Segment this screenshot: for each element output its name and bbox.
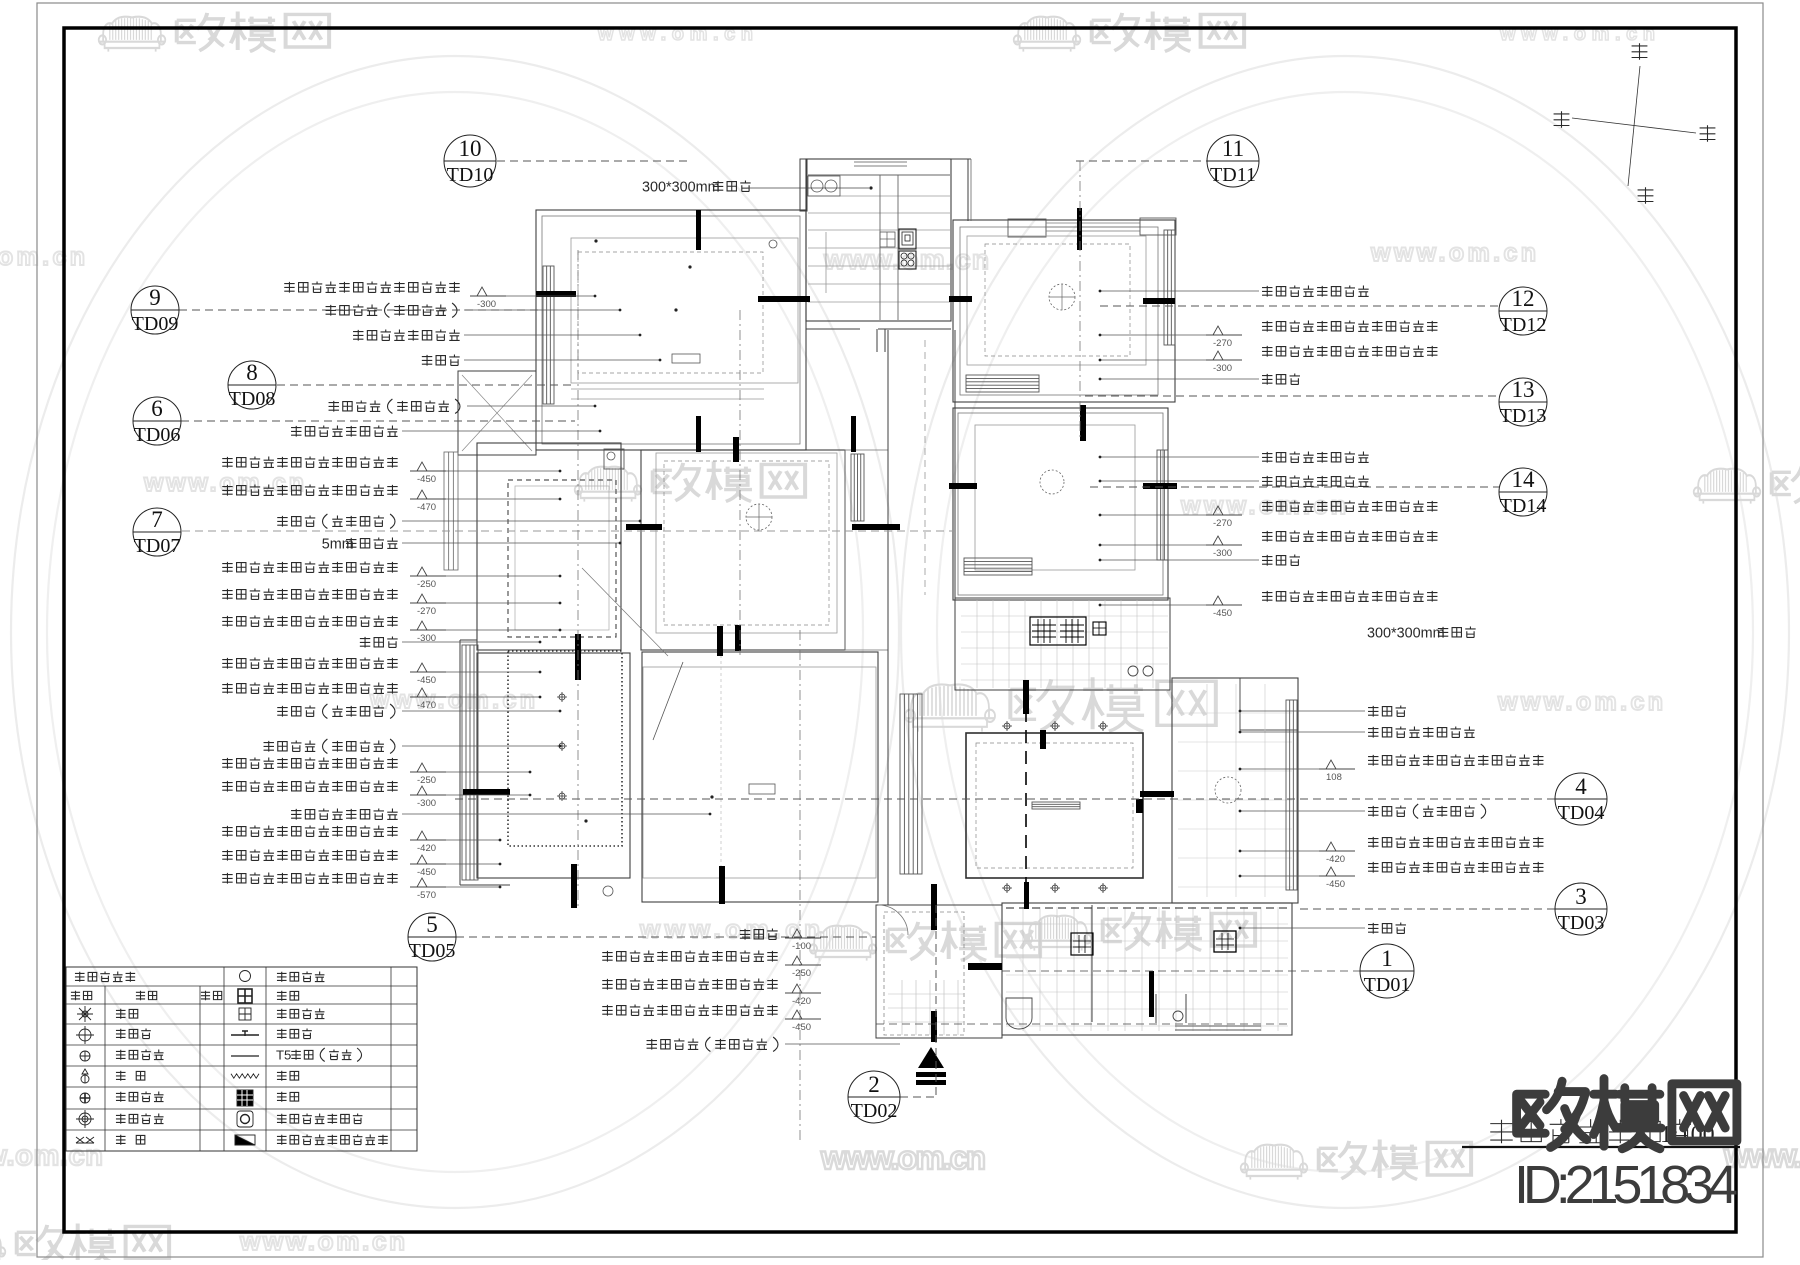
svg-text:-450: -450 (417, 675, 436, 686)
svg-text:www.om.cn: www.om.cn (1370, 239, 1536, 267)
svg-text:8: 8 (246, 360, 258, 385)
legend table (66, 967, 417, 1151)
svg-text:-270: -270 (1213, 518, 1232, 529)
svg-text:-450: -450 (792, 1022, 811, 1033)
svg-text:300*300mm: 300*300mm (642, 180, 720, 196)
svg-text:www.om.cn: www.om.cn (639, 914, 820, 944)
svg-text:www.om.cn: www.om.cn (0, 1140, 103, 1172)
svg-text:4: 4 (1575, 774, 1587, 799)
svg-text:5: 5 (426, 912, 438, 937)
svg-text:-450: -450 (417, 474, 436, 485)
svg-text:-100: -100 (792, 941, 811, 952)
svg-text:-450: -450 (1213, 608, 1232, 619)
callouts (444, 135, 496, 187)
svg-text:14: 14 (1512, 467, 1536, 492)
svg-text:ID:2151834: ID:2151834 (1514, 1155, 1738, 1215)
big logo (1517, 1081, 1587, 1147)
svg-text:11: 11 (1222, 136, 1244, 161)
title (1490, 1120, 1513, 1143)
svg-text:-300: -300 (417, 798, 436, 809)
svg-text:10: 10 (459, 136, 482, 161)
svg-text:TD14: TD14 (1500, 495, 1547, 517)
svg-text:7: 7 (151, 507, 163, 532)
svg-text:-270: -270 (417, 606, 436, 617)
svg-text:TD01: TD01 (1364, 974, 1411, 996)
svg-text:TD07: TD07 (134, 535, 181, 557)
svg-text:TD05: TD05 (409, 940, 456, 962)
svg-text:-450: -450 (417, 867, 436, 878)
svg-text:6: 6 (151, 396, 163, 421)
svg-text:-420: -420 (1326, 854, 1345, 865)
svg-text:-470: -470 (417, 700, 436, 711)
svg-text:TD04: TD04 (1558, 802, 1605, 824)
svg-text:TD10: TD10 (447, 164, 494, 186)
svg-text:TD12: TD12 (1500, 314, 1547, 336)
svg-text:108: 108 (1326, 772, 1342, 783)
svg-text:TD09: TD09 (132, 313, 179, 335)
svg-text:300*300mm: 300*300mm (1367, 626, 1445, 642)
svg-text:5mm: 5mm (322, 537, 354, 553)
svg-text:-300: -300 (477, 299, 496, 310)
svg-text:TD03: TD03 (1558, 912, 1605, 934)
svg-text:13: 13 (1512, 377, 1535, 402)
svg-text:TD11: TD11 (1210, 164, 1256, 186)
svg-text:9: 9 (149, 285, 161, 310)
svg-text:-450: -450 (1326, 879, 1345, 890)
svg-text:-470: -470 (417, 502, 436, 513)
watermarks (99, 11, 329, 51)
svg-text:www.om.cn: www.om.cn (0, 243, 85, 271)
svg-text:1: 1 (1381, 946, 1393, 971)
background watermark arcs (11, 56, 899, 1208)
svg-text:-300: -300 (1213, 548, 1232, 559)
svg-text:T5: T5 (276, 1048, 291, 1063)
svg-text:3: 3 (1575, 884, 1587, 909)
svg-text:-250: -250 (792, 968, 811, 979)
svg-text:2: 2 (868, 1072, 880, 1097)
svg-text:-270: -270 (1213, 338, 1232, 349)
svg-text:-250: -250 (417, 579, 436, 590)
svg-text:-420: -420 (417, 843, 436, 854)
svg-text:TD06: TD06 (134, 424, 181, 446)
svg-text:TD08: TD08 (229, 388, 276, 410)
svg-text:www.om.cn: www.om.cn (143, 469, 304, 497)
svg-text:12: 12 (1512, 286, 1535, 311)
svg-text:-250: -250 (417, 775, 436, 786)
svg-text:www.om.cn: www.om.cn (369, 686, 535, 714)
compass (1632, 43, 1648, 59)
svg-text:www.om.cn: www.om.cn (1497, 688, 1663, 716)
svg-text:-300: -300 (1213, 363, 1232, 374)
svg-text:-570: -570 (417, 890, 436, 901)
svg-text:-420: -420 (792, 996, 811, 1007)
svg-text:www.om.cn: www.om.cn (820, 1139, 986, 1176)
svg-text:TD02: TD02 (851, 1100, 898, 1122)
svg-text:TD13: TD13 (1500, 405, 1547, 427)
